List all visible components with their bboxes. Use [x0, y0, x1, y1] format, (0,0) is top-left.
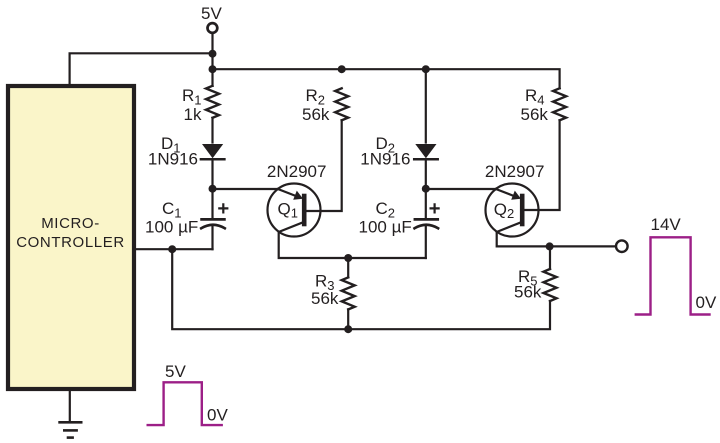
node junction dot R3 top [344, 254, 352, 262]
diode D1 [201, 144, 225, 159]
svg-text:R1: R1 [182, 86, 202, 108]
node junction dot MCU/5V [209, 50, 217, 58]
svg-text:CONTROLLER: CONTROLLER [16, 234, 125, 251]
node junction dot MCU pin branch [168, 245, 176, 253]
svg-text:14V: 14V [651, 215, 682, 234]
wire top rail to R2, D2, R4 [213, 69, 560, 88]
node junction dot R3 bottom [344, 325, 352, 333]
svg-text:Q1: Q1 [278, 199, 298, 220]
capacitor C1 [201, 204, 227, 228]
capacitor C2 [415, 204, 439, 228]
wire D1 node to Q1 emitter [213, 188, 278, 190]
svg-text:0V: 0V [207, 405, 228, 424]
svg-text:56k: 56k [311, 289, 339, 308]
svg-text:MICRO-: MICRO- [41, 215, 100, 232]
waveform 5V pulse (MCU drive) [148, 382, 222, 425]
wire rail up to C2 bottom [425, 227, 427, 258]
wire D2 to C2 [425, 159, 427, 218]
svg-text:2N2907: 2N2907 [485, 162, 545, 181]
svg-text:R2: R2 [306, 86, 326, 108]
wire rail down to D2 [425, 69, 427, 142]
resistor R1 [206, 86, 219, 118]
svg-text:100 µF: 100 µF [359, 218, 412, 237]
svg-text:1N916: 1N916 [148, 150, 198, 169]
svg-text:56k: 56k [521, 105, 549, 124]
wire 5V terminal down to R1 [211, 34, 213, 86]
svg-text:1N916: 1N916 [360, 150, 410, 169]
svg-text:100 µF: 100 µF [145, 218, 198, 237]
node output terminal [616, 240, 628, 252]
node junction dot rail at R2 [338, 65, 346, 73]
ground [60, 391, 82, 438]
svg-text:1k: 1k [184, 105, 202, 124]
transistor Q1 [268, 184, 321, 237]
svg-text:Q2: Q2 [494, 200, 514, 221]
resistor R2 [335, 88, 348, 120]
resistor R3 [342, 258, 355, 329]
svg-text:5V: 5V [201, 4, 222, 23]
wire D1 to C1 [211, 159, 213, 218]
wire R1 to D1 [211, 118, 213, 143]
node junction dot R5 top [546, 242, 554, 250]
wire microcontroller top to 5V node [70, 53, 213, 86]
waveform 14V output pulse [636, 237, 710, 314]
wire D2 node to Q2 emitter [426, 188, 496, 190]
wire MCU pin node down to bottom rail and to R5 bottom [172, 249, 550, 329]
wire MCU pin to C1 [136, 248, 213, 250]
resistor R5 [544, 246, 557, 301]
transistor Q2 [486, 184, 539, 237]
microcontroller U1 box [8, 86, 134, 389]
node junction dot rail at D2 [422, 65, 430, 73]
svg-text:5V: 5V [165, 362, 186, 381]
wire C1 down to MCU output wire [211, 227, 213, 249]
node junction dot D2/C2/Q2 node [422, 185, 430, 193]
wire Q1 base to R2 [304, 120, 342, 211]
node junction dot D1/C1/Q1 base node [209, 185, 217, 193]
node junction dot rail at R1 [209, 65, 217, 73]
svg-text:2N2907: 2N2907 [267, 162, 327, 181]
diode D2 [414, 144, 438, 159]
resistor R4 [553, 88, 566, 120]
wire Q1 collector down to middle rail [279, 232, 426, 258]
svg-text:56k: 56k [302, 105, 330, 124]
wire Q2 base to R4 [522, 120, 559, 210]
svg-text:0V: 0V [696, 293, 717, 312]
svg-text:56k: 56k [514, 283, 542, 302]
svg-text:R4: R4 [525, 86, 545, 108]
node 5V supply terminal [208, 23, 218, 33]
wire Q2 collector to output [497, 232, 616, 246]
